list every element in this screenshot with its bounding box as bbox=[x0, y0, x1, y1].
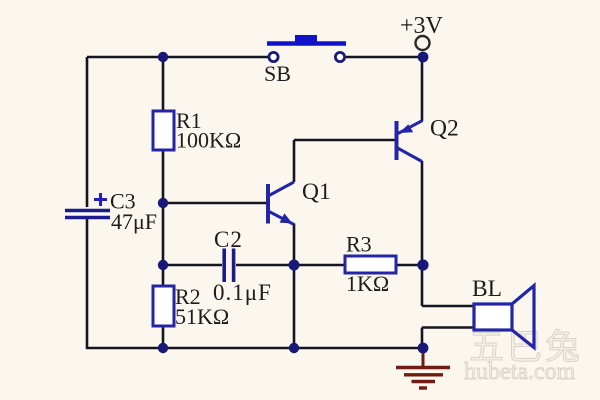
svg-text:47μF: 47μF bbox=[111, 209, 157, 234]
svg-text:C2: C2 bbox=[214, 227, 243, 252]
svg-text:+3V: +3V bbox=[400, 13, 444, 39]
svg-text:1KΩ: 1KΩ bbox=[346, 271, 389, 296]
svg-text:SB: SB bbox=[264, 61, 291, 86]
svg-text:51KΩ: 51KΩ bbox=[175, 304, 229, 329]
svg-text:Q1: Q1 bbox=[302, 179, 331, 205]
svg-text:100KΩ: 100KΩ bbox=[176, 128, 241, 153]
svg-text:hubeta.com: hubeta.com bbox=[464, 359, 576, 385]
svg-text:BL: BL bbox=[472, 276, 502, 302]
svg-text:R3: R3 bbox=[346, 232, 372, 257]
svg-text:0.1μF: 0.1μF bbox=[213, 280, 272, 305]
svg-text:Q2: Q2 bbox=[430, 116, 459, 142]
